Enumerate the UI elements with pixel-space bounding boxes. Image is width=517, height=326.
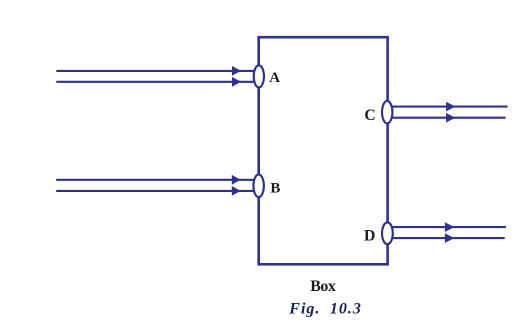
- arrowhead on upper C line: [446, 102, 455, 112]
- svg-text:B: B: [270, 180, 280, 196]
- port ellipse C: [382, 101, 392, 123]
- wire input pair to B (upper line): [56, 179, 255, 181]
- wire output pair from C (upper line): [390, 106, 508, 108]
- arrowhead on lower C line: [446, 113, 455, 123]
- arrowhead on upper B line: [232, 175, 241, 185]
- arrowhead on lower B line: [232, 186, 241, 196]
- svg-text:Fig. 10.3: Fig. 10.3: [288, 300, 362, 317]
- port ellipse A: [254, 65, 264, 87]
- svg-text:Box: Box: [310, 278, 336, 295]
- svg-text:D: D: [364, 228, 375, 245]
- wire output pair from D (lower line): [390, 237, 505, 239]
- wire input pair to B (lower line): [56, 190, 255, 192]
- port ellipse D: [382, 222, 393, 244]
- wire input pair to A (lower line): [56, 81, 255, 83]
- arrowhead on lower D line: [445, 233, 455, 243]
- box (outline of the optical box): [259, 37, 388, 264]
- arrowhead on lower A line: [232, 77, 241, 87]
- wire input pair to A (upper line): [56, 70, 255, 72]
- arrowhead on upper A line: [232, 66, 241, 76]
- svg-text:A: A: [269, 70, 280, 86]
- svg-text:C: C: [364, 107, 375, 124]
- wire output pair from D (upper line): [390, 226, 506, 228]
- arrowhead on upper D line: [445, 222, 455, 232]
- wire output pair from C (lower line): [390, 117, 506, 119]
- port ellipse B: [253, 175, 263, 198]
